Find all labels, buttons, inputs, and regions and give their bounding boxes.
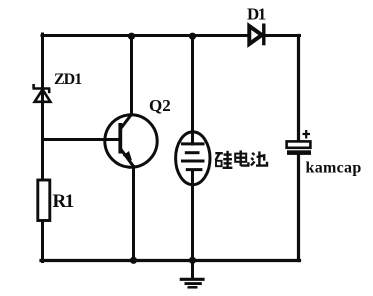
node junction bottom battery [189,257,196,264]
wire emitter drop [132,167,135,261]
wire bottom rail [41,259,300,262]
wire left rail upper [41,34,44,181]
wire battery bottom [191,170,194,261]
battery plate 3 [181,160,205,163]
capacitor plus sign [303,130,311,139]
diode D1 cathode bar [262,24,265,46]
label silicon battery hanzi chi [251,151,267,165]
svg-text:ZD1: ZD1 [54,71,82,88]
battery plate 2 [185,151,200,154]
battery plate 1 [181,142,205,145]
wire ground stub [191,261,194,279]
transistor Q2 emitter arrow [123,151,132,161]
svg-text:kamcap: kamcap [306,159,362,176]
wire right rail upper [297,36,300,142]
ground bar 1 [180,278,205,281]
capacitor top plate [287,141,311,147]
ground bar 3 [188,286,198,289]
ground bar 2 [185,282,202,285]
label silicon battery hanzi dian [235,150,248,165]
node junction bottom emitter [130,257,137,264]
transistor Q2 collector stroke [120,114,132,129]
wire top rail left segment [42,34,250,37]
wire right rail lower [297,155,300,261]
diode D1 triangle [249,26,261,44]
zener diode ZD1 [33,84,51,102]
wire left rail lower [41,221,44,262]
transistor Q2 base bar [118,123,122,154]
wire top rail right segment [264,34,300,37]
battery plate 4 [186,168,203,171]
node junction top battery [189,33,196,40]
node junction top collector [128,33,135,40]
wire battery top [191,36,194,145]
resistor R1 [38,180,50,221]
wire base line [43,138,120,141]
svg-text:D1: D1 [247,4,266,23]
transistor Q2 circle [105,115,157,167]
capacitor bottom plate [287,150,311,155]
battery ellipse [176,132,210,185]
svg-text:Q2: Q2 [149,96,171,115]
label silicon battery hanzi gui [215,151,232,168]
transistor Q2 emitter stroke [120,149,134,167]
wire collector drop [130,36,133,115]
svg-text:R1: R1 [53,191,74,212]
